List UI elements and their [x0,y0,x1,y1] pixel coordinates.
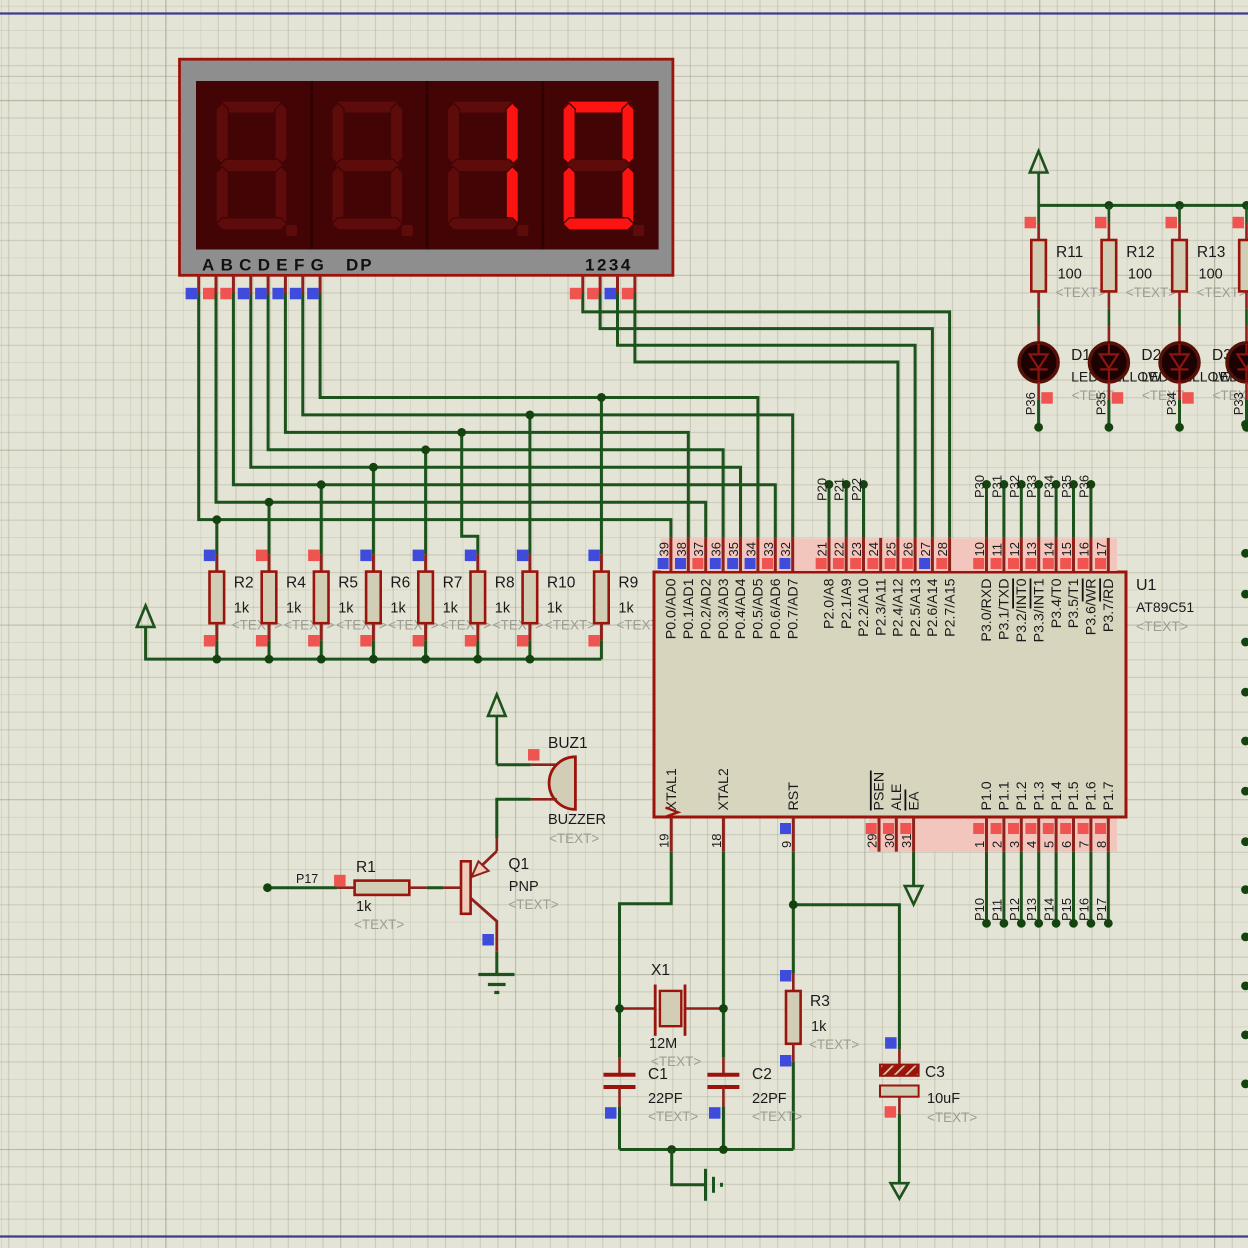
svg-text:XTAL1: XTAL1 [664,768,680,810]
resistor R6 1k [372,554,375,571]
wire display segment C to U1 [233,294,775,538]
wire LED D4 cathode [1245,400,1248,427]
wire net P12 [1020,852,1023,924]
svg-text:1234: 1234 [585,256,633,275]
overline EA [904,790,906,811]
svg-text:6: 6 [1059,841,1074,848]
svg-text:<TEXT>: <TEXT> [1136,618,1188,634]
svg-text:10uF: 10uF [927,1091,960,1107]
svg-text:1k: 1k [547,601,563,617]
svg-text:9: 9 [779,841,794,848]
wire net P13 [1037,852,1040,924]
svg-text:30: 30 [882,834,897,848]
svg-text:15: 15 [1059,542,1074,556]
svg-text:1k: 1k [356,899,372,915]
svg-text:P1.7: P1.7 [1101,781,1117,810]
display digit pin 4 [633,275,636,293]
svg-text:P1.2: P1.2 [1014,781,1030,810]
display segment pin A [197,275,200,293]
wire to ground symbol [672,1150,704,1185]
svg-text:PSEN: PSEN [872,772,888,811]
svg-text:U1: U1 [1136,577,1157,594]
U1 top pin 27 P2.6/A14 [931,538,934,571]
svg-text:C1: C1 [648,1066,668,1083]
svg-text:P16: P16 [1076,898,1091,921]
wire display segment E to U1 [268,294,723,538]
svg-text:19: 19 [657,834,672,848]
svg-text:R11: R11 [1056,244,1083,261]
display segment pin DP [319,275,322,293]
U1 bottom pin 8 P1.7 [1107,817,1110,852]
svg-text:P0.3/AD3: P0.3/AD3 [716,578,732,639]
U1 top pin 32 P0.7/AD7 [791,538,794,571]
svg-text:5: 5 [1042,841,1057,848]
wire net P14 [1055,852,1058,924]
display segment pin B [215,275,218,293]
svg-text:P1.5: P1.5 [1066,781,1082,810]
U1 top pin 23 P2.2/A10 [862,538,865,571]
U1 top pin 12 P3.2/INT0 [1020,538,1023,571]
svg-text:<TEXT>: <TEXT> [1056,285,1106,300]
wire EA pin 31 [912,852,915,886]
overline INT0 [1012,579,1014,609]
clock arrow XTAL1 [666,808,679,817]
svg-text:13: 13 [1024,542,1039,556]
svg-text:P0.2/AD2: P0.2/AD2 [698,578,714,639]
svg-text:26: 26 [901,542,916,556]
svg-text:1k: 1k [286,601,302,617]
resistor R12 100 [1108,205,1111,222]
svg-text:XTAL2: XTAL2 [716,768,732,810]
svg-text:37: 37 [691,542,706,556]
resistor R1 1k [268,886,338,889]
svg-text:28: 28 [935,542,950,556]
U1 bottom pin 18 XTAL2 [722,817,725,852]
wire display digit 2 to U1 [600,294,932,538]
svg-text:P3.0/RXD: P3.0/RXD [979,579,995,642]
svg-text:R7: R7 [443,575,463,592]
wire display digit 1 to U1 [583,294,950,538]
svg-text:14: 14 [1042,542,1057,556]
svg-text:P3.2/INT0: P3.2/INT0 [1014,578,1030,642]
wire net P22 [862,484,865,538]
resistor R8 1k [476,554,479,571]
svg-text:P35: P35 [1059,475,1074,498]
svg-text:R13: R13 [1197,244,1225,261]
svg-text:Q1: Q1 [508,856,529,873]
display digit 4 showing 0 [563,101,634,113]
svg-text:P3.5/T1: P3.5/T1 [1066,578,1082,628]
U1 top pin 34 P0.5/AD5 [756,538,759,571]
U1 bottom pin 19 XTAL1 [670,817,673,852]
wire net P16 [1089,852,1092,924]
svg-text:P3.4/T0: P3.4/T0 [1049,578,1065,628]
wire net P32 [1020,484,1023,538]
svg-text:39: 39 [656,542,671,556]
svg-text:P1.1: P1.1 [997,781,1013,810]
svg-text:P2.3/A11: P2.3/A11 [873,578,889,635]
resistor R9 1k [600,554,603,571]
svg-text:1: 1 [972,841,987,848]
svg-text:P0.5/AD5: P0.5/AD5 [751,578,767,639]
overline PSEN [870,771,872,811]
svg-text:P2.6/A14: P2.6/A14 [925,578,941,636]
display segment pin D [249,275,252,293]
LED D3 [1178,325,1181,344]
svg-text:100: 100 [1128,267,1152,283]
LED D4 [1245,325,1248,344]
U1 bottom pin 30 ALE [895,817,898,852]
svg-text:12: 12 [1007,542,1022,556]
display segment pin G [301,275,304,293]
wire display segment G to U1 [303,294,793,538]
svg-text:R6: R6 [390,575,410,592]
svg-text:22PF: 22PF [752,1091,787,1107]
svg-text:<TEXT>: <TEXT> [927,1110,977,1125]
overline RD [1099,579,1101,602]
display digit pin 1 [581,275,584,293]
wire resistor tap 7 [600,397,603,554]
display digit pin 3 [616,275,619,293]
U1 top pin 38 P0.1/AD1 [687,538,690,571]
svg-text:100: 100 [1058,267,1082,283]
U1 top pin 25 P2.4/A12 [896,538,899,571]
sheet border top [0,12,1248,14]
wire net P20 [828,484,831,538]
svg-text:BUZZER: BUZZER [548,812,606,828]
wire resistor tap 6 [528,415,531,555]
svg-text:<TEXT>: <TEXT> [1126,285,1176,300]
svg-text:P0.0/AD0: P0.0/AD0 [664,578,680,639]
U1 top pin 37 P0.2/AD2 [704,538,707,571]
svg-text:1k: 1k [618,601,634,617]
svg-text:<TEXT>: <TEXT> [545,618,595,633]
svg-text:R9: R9 [618,575,638,592]
svg-text:X1: X1 [651,962,670,979]
svg-text:P17: P17 [1094,898,1109,921]
svg-text:32: 32 [778,542,793,556]
svg-text:1k: 1k [495,601,511,617]
svg-text:22PF: 22PF [648,1091,683,1107]
svg-text:P2.7/A15: P2.7/A15 [942,578,958,636]
svg-text:P36: P36 [1023,392,1038,415]
svg-text:R10: R10 [547,575,576,592]
svg-text:4: 4 [1024,841,1039,848]
U1 bottom pin 29 PSEN [878,817,881,852]
svg-text:P2.2/A10: P2.2/A10 [856,578,872,636]
svg-text:18: 18 [709,834,724,848]
pin highlight strip bottom [869,819,1117,852]
svg-text:BUZ1: BUZ1 [548,735,588,752]
svg-text:P30: P30 [972,475,987,498]
svg-text:P3.1/TXD: P3.1/TXD [997,579,1013,641]
svg-text:16: 16 [1076,542,1091,556]
svg-text:DP: DP [346,256,374,275]
U1 bottom pin 6 P1.5 [1072,817,1075,852]
svg-text:3: 3 [1007,841,1022,848]
wire display segment B to U1 [216,294,706,538]
svg-text:P2.1/A9: P2.1/A9 [839,578,855,629]
U1 top pin 39 P0.0/AD0 [669,538,672,571]
wire LED D3 cathode [1178,400,1181,427]
svg-text:D2: D2 [1141,347,1161,364]
svg-text:P12: P12 [1007,898,1022,921]
overline WR [1082,579,1084,602]
ground rail under resistor network [146,627,602,659]
wire net P17 [1107,852,1110,924]
svg-text:21: 21 [815,542,830,556]
svg-text:P1.6: P1.6 [1084,781,1100,810]
power arrow down at C3 [891,1183,909,1198]
svg-text:P35: P35 [1093,392,1108,415]
svg-text:P2.5/A13: P2.5/A13 [908,578,924,636]
power terminal arrow [488,694,506,716]
LED D2 [1108,325,1111,344]
wire display digit 4 to U1 [635,294,898,538]
U1 bottom pin 2 P1.1 [1002,817,1005,852]
overline INT1 [1030,579,1032,609]
wire ground rail xtal [620,1148,794,1151]
svg-text:P36: P36 [1076,475,1091,498]
wire LED D2 cathode [1107,400,1110,427]
wire buzzer top terminal [497,763,531,766]
svg-text:P20: P20 [815,478,830,501]
svg-text:P21: P21 [832,478,847,501]
U1 top pin 17 P3.7/RD [1107,538,1110,571]
svg-text:27: 27 [918,542,933,556]
svg-text:R8: R8 [495,575,515,592]
wire Q1 collector to ground [495,951,498,974]
svg-text:<TEXT>: <TEXT> [549,831,599,846]
U1 top pin 13 P3.3/INT1 [1037,538,1040,571]
svg-text:P34: P34 [1164,392,1179,415]
svg-text:R2: R2 [234,575,254,592]
svg-text:P0.7/AD7: P0.7/AD7 [785,578,801,639]
resistor R13 100 [1178,205,1181,222]
U1 bottom pin 5 P1.4 [1055,817,1058,852]
svg-text:<TEXT>: <TEXT> [809,1037,859,1052]
svg-text:P22: P22 [849,478,864,501]
U1 top pin 14 P3.4/T0 [1055,538,1058,571]
svg-text:PNP: PNP [509,879,539,895]
resistor R11 100 [1037,205,1040,222]
svg-text:36: 36 [709,542,724,556]
wire net P11 [1002,852,1005,924]
wire display digit 3 to U1 [618,294,916,538]
svg-text:ABCDEFG: ABCDEFG [202,256,330,275]
resistor R3 1k [792,974,795,991]
wire net P33 [1037,484,1040,538]
resistor R7 1k [424,554,427,571]
crystal X1 12M [620,1007,656,1010]
svg-text:ALE: ALE [889,784,905,811]
wire XTAL1 pin 19 [620,852,672,1058]
U1 top pin 28 P2.7/A15 [948,538,951,571]
U1 top pin 26 P2.5/A13 [914,538,917,571]
svg-text:31: 31 [899,834,914,848]
U1 AT89C51 microcontroller body [654,572,1126,817]
resistor R2 1k [215,554,218,571]
resistor R10 1k [528,554,531,571]
wire RST pin 9 to R3 and C3 [793,852,899,1049]
capacitor C2 22PF [722,1057,725,1074]
svg-text:1k: 1k [338,601,354,617]
wire display segment F to U1 [285,294,688,538]
wire resistor tap 0 [215,520,218,555]
svg-text:R1: R1 [356,859,376,876]
svg-text:17: 17 [1094,542,1109,556]
transistor Q1 PNP [495,838,498,851]
U1 bottom pin 9 RST [792,817,795,852]
resistor R14 100 [1245,205,1248,222]
ground symbol under Q1 [478,973,514,976]
svg-text:P3.7/RD: P3.7/RD [1101,579,1117,633]
U1 top pin 10 P3.0/RXD [985,538,988,571]
svg-text:7: 7 [1076,841,1091,848]
svg-text:10: 10 [972,542,987,556]
U1 top pin 24 P2.3/A11 [879,538,882,571]
wire resistor tap 1 [268,502,271,554]
display segment pin C [232,275,235,293]
U1 bottom pin 31 EA [912,817,915,852]
U1 bottom pin 4 P1.3 [1037,817,1040,852]
svg-text:22: 22 [832,542,847,556]
svg-text:P3.3/INT1: P3.3/INT1 [1031,578,1047,642]
svg-text:P0.4/AD4: P0.4/AD4 [733,578,749,639]
svg-text:<TEXT>: <TEXT> [508,897,558,912]
U1 top pin 21 P2.0/A8 [828,538,831,571]
svg-text:1k: 1k [390,601,406,617]
svg-text:23: 23 [849,542,864,556]
svg-text:P17: P17 [296,872,318,886]
svg-text:<TEXT>: <TEXT> [648,1109,698,1124]
display segment pin E [267,275,270,293]
svg-text:P34: P34 [1042,475,1057,498]
svg-text:1k: 1k [234,601,250,617]
wire net P35 [1072,484,1075,538]
wire net P31 [1002,484,1005,538]
svg-text:P1.3: P1.3 [1031,781,1047,810]
svg-text:R5: R5 [338,575,358,592]
svg-text:<TEXT>: <TEXT> [752,1109,802,1124]
svg-text:1k: 1k [443,601,459,617]
svg-text:24: 24 [866,542,881,556]
display digit 3 showing 1 [447,101,518,113]
display digit 2 (ghost 8) [332,101,403,113]
svg-text:<TEXT>: <TEXT> [354,917,404,932]
svg-text:34: 34 [743,542,758,556]
svg-text:12M: 12M [649,1036,677,1052]
wire resistor tap 2 [320,485,323,555]
svg-text:EA: EA [906,791,922,810]
svg-text:P32: P32 [1007,475,1022,498]
wire display segment DP to U1 [320,294,758,538]
wire net P36 [1089,484,1092,538]
display segment pin F [284,275,287,293]
U1 top pin 33 P0.6/AD6 [774,538,777,571]
U1 bottom pin 3 P1.2 [1020,817,1023,852]
capacitor C3 10uF electrolytic [898,1049,901,1065]
wire buzzer bottom to Q1 emitter [497,799,531,838]
svg-text:P0.1/AD1: P0.1/AD1 [681,578,697,639]
right edge wire dots [1241,420,1248,429]
svg-text:R4: R4 [286,575,306,592]
sheet border bottom [0,1235,1248,1237]
svg-text:P13: P13 [1024,898,1039,921]
display digit 1 (ghost 8) [216,101,287,113]
U1 bottom pin 7 P1.6 [1089,817,1092,852]
power arrow down at EA [905,886,923,905]
svg-text:1k: 1k [811,1019,827,1035]
wire net P15 [1072,852,1075,924]
svg-text:35: 35 [726,542,741,556]
svg-text:P14: P14 [1042,898,1057,921]
svg-text:C2: C2 [752,1066,772,1083]
7-segment display module [180,59,673,275]
wire net P34 [1055,484,1058,538]
capacitor C1 22PF [618,1057,621,1074]
svg-text:P2.0/A8: P2.0/A8 [822,578,838,629]
svg-text:P33: P33 [1231,392,1246,415]
U1 top pin 11 P3.1/TXD [1002,538,1005,571]
display digit pin 2 [599,275,602,293]
svg-text:25: 25 [883,542,898,556]
svg-text:AT89C51: AT89C51 [1136,599,1194,615]
buzzer BUZ1 [549,757,575,810]
wire LED D1 cathode [1037,400,1040,427]
U1 top pin 22 P2.1/A9 [845,538,848,571]
svg-text:P10: P10 [972,898,987,921]
U1 top pin 36 P0.3/AD3 [722,538,725,571]
wire net P30 [985,484,988,538]
power terminal arrow [137,606,155,628]
svg-text:P0.6/AD6: P0.6/AD6 [768,578,784,639]
svg-text:8: 8 [1094,841,1109,848]
wire resistor tap 5 [462,432,478,554]
svg-text:P15: P15 [1059,898,1074,921]
svg-text:100: 100 [1199,267,1223,283]
svg-text:R12: R12 [1126,244,1154,261]
svg-text:P2.4/A12: P2.4/A12 [891,578,907,636]
power terminal arrow [1030,151,1048,173]
wire display segment A to U1 [199,294,671,538]
svg-text:P33: P33 [1024,475,1039,498]
svg-text:P3.6/WR: P3.6/WR [1084,579,1100,636]
ground symbol rotated [704,1169,707,1201]
svg-text:P31: P31 [989,475,1004,498]
svg-text:C3: C3 [925,1064,945,1081]
svg-text:P1.4: P1.4 [1049,781,1065,810]
svg-text:R3: R3 [810,993,830,1010]
resistor R5 1k [320,554,323,571]
svg-text:2: 2 [989,841,1004,848]
wire resistor tap 3 [372,467,375,554]
svg-text:33: 33 [761,542,776,556]
wire XTAL2 pin 18 [722,852,725,1058]
wire net P10 [985,852,988,924]
wire net P21 [845,484,848,538]
wire display segment D to U1 [251,294,741,538]
pin highlight strip top [661,538,1117,571]
wire LED power rail [1039,204,1248,207]
svg-text:29: 29 [865,834,880,848]
svg-text:RST: RST [786,782,802,811]
svg-text:11: 11 [989,543,1004,557]
U1 top pin 35 P0.4/AD4 [739,538,742,571]
wire resistor tap 4 [424,450,427,555]
U1 bottom pin 1 P1.0 [985,817,988,852]
resistor R4 1k [268,554,271,571]
